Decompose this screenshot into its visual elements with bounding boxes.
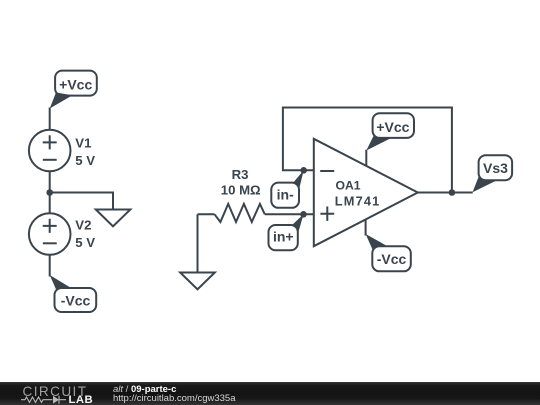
wire op-amp output — [418, 192, 473, 194]
net flag -Vcc (op-amp negative supply) — [366, 234, 411, 271]
power pin +Vcc stub — [365, 150, 367, 166]
net flag -Vcc (bottom of V2) — [50, 275, 96, 312]
wire V1 bottom to V2 top — [49, 171, 51, 213]
ground 2 (left of R3) — [180, 273, 215, 290]
net flag in+ — [269, 214, 304, 250]
node output junction — [449, 189, 456, 196]
wire feedback loop (output to inverting input) — [283, 108, 452, 193]
resistor R3 10 MΩ — [215, 167, 265, 222]
svg-text:LM741: LM741 — [335, 194, 381, 209]
svg-text:in+: in+ — [273, 228, 294, 244]
CircuitLab logo — [0, 382, 110, 405]
node junction between V1 and V2 — [46, 189, 53, 196]
svg-text:Vs3: Vs3 — [483, 160, 508, 176]
net flag in- — [271, 170, 303, 208]
power pin -Vcc stub — [365, 220, 367, 236]
svg-text:10 MΩ: 10 MΩ — [221, 182, 261, 197]
svg-text:5 V: 5 V — [75, 235, 95, 250]
svg-text:+Vcc: +Vcc — [376, 119, 409, 135]
net flag +Vcc (top of V1) — [50, 71, 97, 109]
net flag +Vcc (op-amp positive supply) — [366, 113, 414, 150]
svg-text:+Vcc: +Vcc — [59, 76, 92, 92]
svg-text:R3: R3 — [232, 167, 249, 182]
svg-text:-Vcc: -Vcc — [377, 251, 407, 267]
footer title text — [113, 385, 176, 395]
wire +Vcc flag to V1 top — [49, 108, 51, 131]
wire V2 bottom to -Vcc flag — [49, 255, 51, 277]
svg-text:in-: in- — [277, 186, 294, 202]
wire ground riser to resistor R3 — [198, 213, 215, 215]
svg-text:LAB: LAB — [69, 394, 94, 405]
node in+ junction — [300, 211, 307, 218]
net flag Vs3 (output) — [473, 155, 513, 192]
op-amp OA1 LM741 — [314, 139, 418, 246]
voltage source V2 (5 V) — [29, 213, 95, 255]
voltage source V1 (5 V) — [29, 130, 95, 172]
wire resistor to op-amp noninverting input — [265, 213, 314, 215]
footer bar — [0, 382, 540, 405]
footer url text — [113, 394, 236, 404]
svg-text:-Vcc: -Vcc — [61, 292, 91, 308]
svg-text:5 V: 5 V — [75, 153, 95, 168]
svg-text:OA1: OA1 — [336, 178, 361, 192]
svg-text:V1: V1 — [75, 135, 91, 150]
wire ground 2 riser — [197, 214, 199, 272]
ground 1 (between sources) — [96, 210, 131, 227]
wire junction to ground 1 — [50, 193, 113, 210]
node in- junction — [300, 167, 307, 174]
svg-text:V2: V2 — [75, 217, 91, 232]
